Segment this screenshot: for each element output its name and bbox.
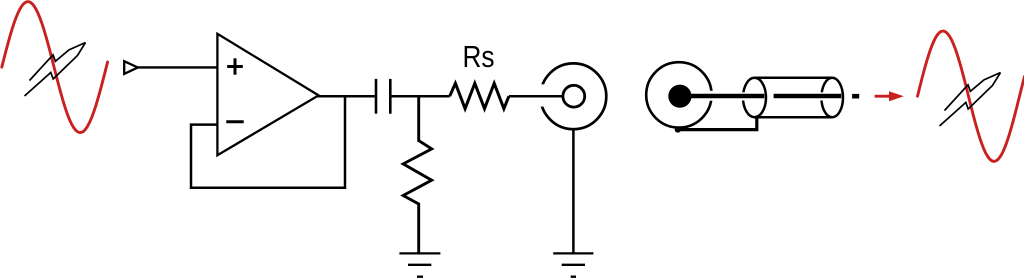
resistor (shunt to ground) — [403, 95, 432, 253]
input signal sine wave (red) — [2, 2, 108, 133]
wire: input to op-amp — [136, 66, 217, 68]
interference bolt on input sine — [25, 43, 86, 97]
RCA plug body (face view) — [646, 62, 716, 127]
op-amp U1 — [217, 34, 318, 155]
input arrow — [124, 61, 138, 74]
label Rs — [463, 39, 495, 74]
output arrow (red) — [875, 91, 904, 101]
RCA center pin line — [684, 94, 841, 98]
interference bolt on output sine — [940, 73, 1001, 127]
RCA center contact (filled) — [668, 85, 691, 108]
junction node on RCA shell — [675, 127, 681, 133]
svg-text:Rs: Rs — [463, 39, 495, 74]
pin stub dash — [852, 94, 859, 99]
output signal sine wave (red) — [918, 31, 1024, 161]
BNC connector outer shell — [537, 63, 607, 129]
ground (BNC shell) — [553, 253, 593, 276]
wire: BNC shell to ground — [572, 129, 575, 252]
ground (shunt resistor) — [399, 253, 440, 276]
wire: capacitor to Rs — [392, 95, 450, 98]
BNC center pin — [563, 85, 585, 107]
cable barrel (side view cylinder) — [740, 78, 844, 117]
wire: feedback loop — [191, 96, 345, 188]
resistor Rs (series) — [450, 83, 509, 108]
wire: Rs to BNC center — [509, 95, 563, 98]
wire: RCA shell to barrel — [678, 116, 757, 130]
wire: op-amp output rail — [317, 95, 375, 98]
capacitor (coupling) — [376, 79, 390, 114]
